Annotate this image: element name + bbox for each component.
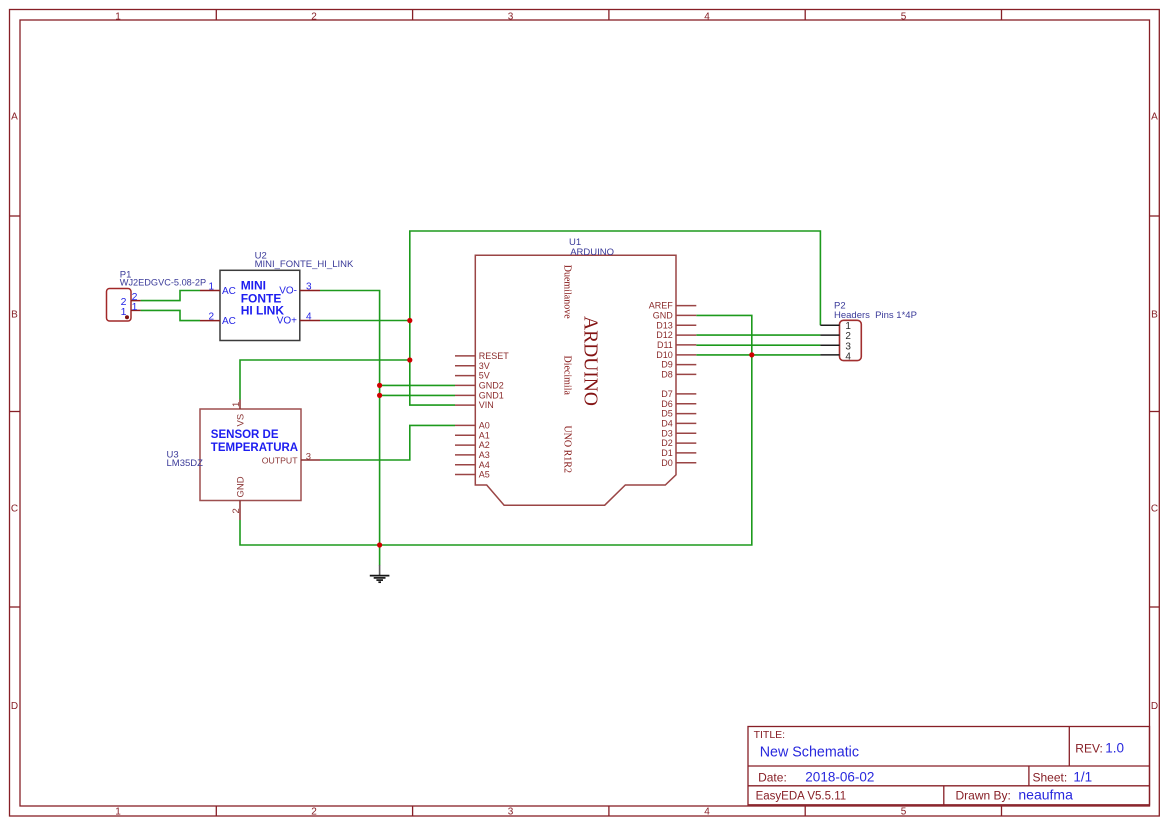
ground bar 4 xyxy=(378,581,381,583)
svg-text:TEMPERATURA: TEMPERATURA xyxy=(211,442,298,454)
svg-text:5V: 5V xyxy=(479,371,490,381)
U1 pin stub D3 xyxy=(676,432,696,434)
junction dots xyxy=(377,318,754,548)
svg-text:3: 3 xyxy=(508,11,514,22)
junction GND1 xyxy=(377,393,382,398)
U1 pin stub D9 xyxy=(676,364,696,366)
power module U2 MINI_FONTE_HI_LINK xyxy=(200,250,354,340)
svg-text:EasyEDA V5.5.11: EasyEDA V5.5.11 xyxy=(756,791,847,803)
U1 pin stub A0 xyxy=(455,424,475,426)
wire top net to P2.1 xyxy=(410,231,821,325)
junction VS / vertical xyxy=(407,357,412,362)
U1 pin stub GND2 xyxy=(455,384,475,386)
wire D12 to P2.2 xyxy=(696,334,820,336)
U1 pin stub A1 xyxy=(455,434,475,436)
svg-text:5: 5 xyxy=(901,807,907,818)
U1 pin stub D8 xyxy=(676,373,696,375)
svg-text:UNO R1R2: UNO R1R2 xyxy=(562,425,573,473)
U3 pin 2 stub (GND) xyxy=(239,501,241,521)
svg-text:GND: GND xyxy=(653,311,674,321)
svg-text:1: 1 xyxy=(231,402,242,407)
temperature sensor U3 LM35DZ xyxy=(167,400,321,521)
wire GND1 branch xyxy=(380,394,455,396)
svg-text:OUTPUT: OUTPUT xyxy=(262,456,298,466)
svg-text:ARDUINO: ARDUINO xyxy=(570,247,614,258)
U3 pin 3 stub (OUTPUT) xyxy=(301,459,320,461)
svg-text:2018-06-02: 2018-06-02 xyxy=(805,770,874,785)
svg-text:MINI: MINI xyxy=(241,278,266,292)
wire ground stem xyxy=(379,545,381,565)
U1 pin stub A3 xyxy=(455,454,475,456)
ground symbol xyxy=(370,565,390,582)
svg-text:1: 1 xyxy=(121,306,127,318)
svg-text:REV:: REV: xyxy=(1075,742,1103,756)
U3 body xyxy=(200,409,301,501)
svg-text:HI LINK: HI LINK xyxy=(241,303,285,317)
svg-text:D9: D9 xyxy=(661,360,673,370)
U1 pin stub 5V xyxy=(455,375,475,377)
wire A0 to OUTPUT xyxy=(320,425,455,460)
svg-text:A0: A0 xyxy=(479,421,490,431)
svg-text:D10: D10 xyxy=(656,350,673,360)
U1 pin stub D12 xyxy=(676,334,696,336)
wire P1.2 to U2.1 xyxy=(141,291,200,301)
svg-text:B: B xyxy=(1151,310,1158,321)
svg-text:neaufma: neaufma xyxy=(1018,787,1073,803)
U3 pin 1 stub (VS) xyxy=(239,400,241,410)
svg-text:A1: A1 xyxy=(479,430,490,440)
junction GND2 xyxy=(377,383,382,388)
U1 pin stub D1 xyxy=(676,452,696,454)
U1 pin stub RESET xyxy=(455,355,475,357)
svg-text:A4: A4 xyxy=(479,460,490,470)
U1 pin stub VIN xyxy=(455,404,475,406)
wire VS to vertical xyxy=(240,360,410,400)
wire P1.1 to U2.2 xyxy=(141,310,200,320)
arduino U1 xyxy=(455,237,696,505)
P2 pin 4 stub xyxy=(820,354,839,356)
svg-text:D: D xyxy=(11,701,18,712)
U1 pin stub D6 xyxy=(676,403,696,405)
svg-text:ARDUINO: ARDUINO xyxy=(580,316,601,406)
U1 pin stub D11 xyxy=(676,344,696,346)
svg-text:A2: A2 xyxy=(479,440,490,450)
P1 body xyxy=(107,289,132,322)
svg-text:3: 3 xyxy=(306,451,311,462)
svg-text:1.0: 1.0 xyxy=(1105,741,1124,756)
svg-text:1: 1 xyxy=(115,11,121,22)
svg-text:D4: D4 xyxy=(661,419,673,429)
U1 pin stub D13 xyxy=(676,324,696,326)
svg-text:SENSOR DE: SENSOR DE xyxy=(211,429,279,441)
svg-text:1: 1 xyxy=(132,301,138,313)
svg-text:3: 3 xyxy=(306,281,312,292)
U1 body outline xyxy=(475,255,676,505)
U1 pin stub D4 xyxy=(676,422,696,424)
P2 pin 3 stub xyxy=(820,344,839,346)
P2 body xyxy=(840,320,862,360)
junction VO+ / vertical xyxy=(407,318,412,323)
U1 pin stub A2 xyxy=(455,444,475,446)
U1 pin stub D10 xyxy=(676,354,696,356)
junction D10 / GND vertical xyxy=(749,352,754,357)
junction ground node xyxy=(377,542,382,547)
svg-text:AC: AC xyxy=(222,316,236,327)
svg-text:D8: D8 xyxy=(661,370,673,380)
svg-text:3: 3 xyxy=(508,807,514,818)
U1 pin stub A4 xyxy=(455,464,475,466)
wire D10 to P2.4 xyxy=(696,354,820,356)
svg-text:D5: D5 xyxy=(661,409,673,419)
wire bottom ground net xyxy=(240,315,752,545)
U2 pin 1 stub xyxy=(200,290,220,292)
svg-text:D0: D0 xyxy=(661,458,673,468)
svg-text:Date:: Date: xyxy=(758,771,787,785)
wire GND2 branch xyxy=(380,384,455,386)
svg-text:D7: D7 xyxy=(661,389,673,399)
svg-text:VO-: VO- xyxy=(279,285,297,296)
svg-text:2: 2 xyxy=(311,11,317,22)
svg-text:D: D xyxy=(1151,701,1158,712)
svg-text:4: 4 xyxy=(704,807,710,818)
svg-text:C: C xyxy=(1151,504,1158,515)
U1 pin stub AREF xyxy=(676,305,696,307)
svg-text:VIN: VIN xyxy=(479,400,494,410)
svg-text:LM35DZ: LM35DZ xyxy=(167,458,204,469)
header P2 Headers Pins 1*4P xyxy=(820,301,917,363)
svg-text:WJ2EDGVC-5.08-2P: WJ2EDGVC-5.08-2P xyxy=(120,277,206,287)
svg-text:D6: D6 xyxy=(661,399,673,409)
svg-text:1: 1 xyxy=(115,807,121,818)
svg-text:Diecimila: Diecimila xyxy=(561,355,572,395)
U2 pin 3 stub xyxy=(300,290,320,292)
title block xyxy=(748,727,1150,805)
svg-text:3V: 3V xyxy=(479,361,490,371)
svg-text:1/1: 1/1 xyxy=(1073,770,1092,785)
U1 pin stub A5 xyxy=(455,474,475,476)
wire D11 to P2.3 xyxy=(696,344,820,346)
svg-text:A: A xyxy=(11,112,18,123)
svg-text:D12: D12 xyxy=(656,330,673,340)
U2 body xyxy=(220,270,300,340)
U2 pin 2 stub xyxy=(200,320,220,322)
svg-text:AREF: AREF xyxy=(649,301,674,311)
svg-text:A5: A5 xyxy=(479,470,490,480)
wire vertical to VIN xyxy=(410,321,455,406)
svg-text:GND: GND xyxy=(236,476,247,497)
U1 pin stub 3V xyxy=(455,365,475,367)
svg-text:GND1: GND1 xyxy=(479,391,504,401)
svg-text:D2: D2 xyxy=(661,438,673,448)
svg-text:TITLE:: TITLE: xyxy=(754,729,786,741)
svg-text:C: C xyxy=(11,504,18,515)
ground bar 1 xyxy=(370,575,390,577)
svg-text:D3: D3 xyxy=(661,428,673,438)
svg-text:4: 4 xyxy=(306,311,312,322)
svg-text:4: 4 xyxy=(845,351,851,362)
svg-text:AC: AC xyxy=(222,286,236,297)
P1 pin 1 stub xyxy=(131,309,141,311)
wire VO- net vertical xyxy=(320,291,380,546)
svg-text:2: 2 xyxy=(311,807,317,818)
ground bar 3 xyxy=(376,579,383,581)
title block texts xyxy=(754,729,1103,803)
svg-text:D11: D11 xyxy=(657,340,673,350)
U1 pin stub GND xyxy=(676,314,696,316)
P1 pin 2 stub xyxy=(131,300,141,302)
svg-text:2: 2 xyxy=(231,508,242,513)
svg-text:A3: A3 xyxy=(479,450,490,460)
svg-text:Drawn By:: Drawn By: xyxy=(956,789,1011,803)
U1 pin stub D2 xyxy=(676,442,696,444)
svg-text:B: B xyxy=(11,310,18,321)
U1 pin stub GND1 xyxy=(455,394,475,396)
U1 pin stub D0 xyxy=(676,462,696,464)
wires xyxy=(141,231,821,565)
svg-text:Headers Pins 1*4P: Headers Pins 1*4P xyxy=(834,310,917,321)
svg-text:D13: D13 xyxy=(656,320,673,330)
svg-text:RESET: RESET xyxy=(479,351,510,361)
wire VO+ xyxy=(320,320,410,322)
connector P1 xyxy=(107,269,207,321)
svg-text:Sheet:: Sheet: xyxy=(1033,771,1068,785)
svg-text:D1: D1 xyxy=(661,448,673,458)
svg-text:MINI_FONTE_HI_LINK: MINI_FONTE_HI_LINK xyxy=(255,259,354,270)
svg-text:1: 1 xyxy=(208,281,214,292)
svg-text:GND2: GND2 xyxy=(479,381,504,391)
U2 pin 4 stub xyxy=(300,320,320,322)
P2 pin 2 stub xyxy=(820,334,839,336)
svg-text:5: 5 xyxy=(901,11,907,22)
svg-text:A: A xyxy=(1151,112,1158,123)
svg-text:Duemilanove: Duemilanove xyxy=(561,265,572,319)
U1 pin stub D7 xyxy=(676,393,696,395)
P2 pin 1 stub xyxy=(820,324,839,326)
ground bar 2 xyxy=(374,577,386,579)
U1 pin stub D5 xyxy=(676,413,696,415)
P1 polarity dot xyxy=(125,315,129,319)
svg-text:4: 4 xyxy=(704,11,710,22)
svg-text:VS: VS xyxy=(236,414,247,427)
svg-text:New Schematic: New Schematic xyxy=(760,745,859,761)
ground stem xyxy=(379,565,381,575)
svg-text:2: 2 xyxy=(208,311,214,322)
